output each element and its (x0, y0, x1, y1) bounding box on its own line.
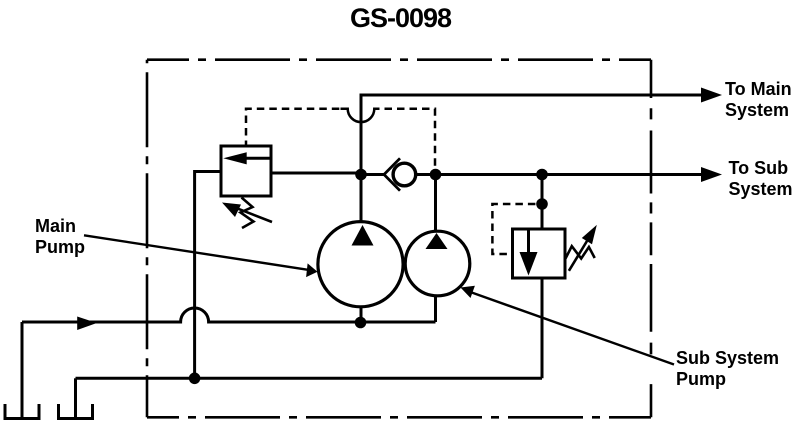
wire: node B down to sub pump top (434, 175, 437, 233)
label Main Pump (35, 216, 85, 258)
wire: check valve out to node B (416, 173, 436, 176)
junction node B dot (430, 169, 442, 181)
leader arrowhead at sub pump (461, 286, 475, 298)
junction node A dot (355, 169, 367, 181)
To Sub System arrowhead (701, 167, 722, 182)
relief valve R1 pilot line (dashed) with hop over main riser (246, 109, 341, 146)
relief valve R1 spring (241, 198, 254, 229)
leader line: Sub System Pump label to pump (471, 292, 674, 364)
wire: pump suction line with hop over relief drain (22, 308, 436, 322)
main pump P1 flow triangle (352, 225, 374, 246)
right valve V2 internal arrow line (down) (527, 229, 530, 252)
sub pump P2 circle (405, 231, 470, 296)
relief valve R1 body (221, 146, 271, 196)
wire: To Sub line tap down into valve V2 (541, 175, 544, 230)
label To Sub System (729, 158, 793, 200)
right valve V2 body (513, 229, 566, 278)
tank T2 return pipe (74, 378, 77, 418)
wire: right valve outlet down (541, 278, 544, 378)
junction node D dot (pilot tap) (536, 198, 548, 210)
wire: node A to check valve seat (361, 173, 384, 176)
junction node C dot (To Sub tap) (536, 169, 548, 181)
right valve V2 adjustment arrow line (569, 241, 587, 271)
right valve V2 pilot line (dashed) (492, 204, 542, 254)
check valve seat (384, 158, 400, 190)
main pump P1 circle (318, 222, 403, 307)
relief valve R1 adjustment arrow line (238, 209, 272, 222)
enclosure border right (650, 60, 653, 418)
enclosure border top (dash-dot manifold boundary) (147, 58, 651, 61)
label To Main System (725, 79, 792, 121)
junction node E dot (pump suction) (355, 317, 367, 329)
tank T1 suction pipe (21, 322, 24, 418)
relief valve R1 pilot line continuation to node B (377, 109, 435, 175)
wire: relief valve output to node A (271, 173, 361, 175)
leader arrowhead at main pump (306, 263, 317, 277)
pilot hop arc under crossing (341, 109, 378, 122)
enclosure border bottom (147, 416, 651, 419)
relief valve R1 internal flow arrow line (points left) (242, 157, 271, 160)
wire: main pump bottom to suction line (360, 307, 363, 322)
wire: suction up to sub pump bottom (434, 296, 437, 322)
sub pump P2 flow triangle (426, 233, 448, 249)
title GS-0098 (350, 5, 451, 32)
leader line: Main Pump label to pump (84, 235, 308, 269)
flow arrowhead on suction line (77, 317, 97, 331)
right valve V2 spring (566, 246, 595, 258)
right valve V2 adjustment arrowhead (582, 225, 597, 244)
wire: drain line to tank T2 (76, 377, 543, 380)
right valve V2 internal arrowhead (520, 252, 538, 276)
junction node F dot (drain) (189, 373, 201, 385)
tank T1 (bottom-left reservoir) (5, 404, 39, 419)
relief valve R1 internal flow arrowhead (223, 152, 246, 164)
wire: To-Main riser and To Main System line (361, 95, 702, 175)
relief valve R1 adjustment arrowhead (222, 203, 241, 218)
label Sub System Pump (676, 348, 779, 390)
wire: main pump outlet up (360, 175, 363, 222)
wire: To Sub System line (436, 173, 703, 176)
To Main System arrowhead (701, 88, 722, 103)
check valve ball (393, 163, 416, 186)
relief valve R1 drain: left port and vertical down (195, 172, 221, 379)
enclosure border left (146, 60, 149, 418)
tank T2 (return reservoir) (59, 404, 93, 419)
